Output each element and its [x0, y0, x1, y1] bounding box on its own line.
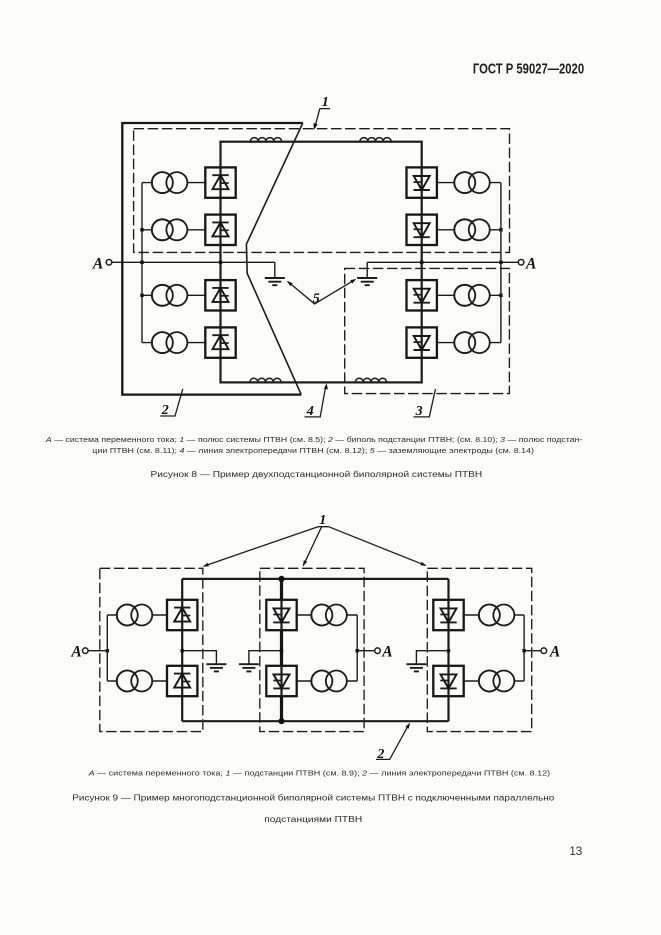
transformer T10 [117, 671, 153, 692]
svg-text:ГОСТ Р 59027—2020: ГОСТ Р 59027—2020 [473, 61, 584, 78]
label 2 arrowhead [405, 723, 410, 729]
label 1 arrowhead middle [303, 560, 307, 566]
svg-text:ции ПТВН (см. 8.11); 4 — линия: ции ПТВН (см. 8.11); 4 — линия электропе… [92, 448, 534, 455]
label 4 leader [305, 386, 326, 417]
ground tap wire right [367, 262, 422, 277]
svg-text:Рисунок 9 — Пример многоподста: Рисунок 9 — Пример многоподстанционной б… [72, 794, 555, 803]
label 1 leader three-branch [204, 527, 425, 566]
substation 3 DC bus [447, 579, 449, 721]
wire row2 right [437, 229, 501, 231]
wire row1 right [437, 182, 501, 184]
converter valve U13 [433, 600, 463, 630]
converter valve U12 [266, 666, 296, 696]
left AC feeder wire [141, 183, 143, 343]
sub3 AC line wire [524, 650, 541, 652]
converter valve U4 [205, 327, 235, 357]
junction feeder-right / A line [499, 261, 502, 264]
converter valve U7 [407, 280, 437, 310]
transformer T5 [454, 172, 490, 193]
sub2 AC feeder wire [356, 615, 358, 681]
svg-text:1: 1 [319, 513, 326, 528]
svg-text:1: 1 [322, 95, 329, 110]
label 5 arrowhead right [350, 279, 356, 284]
sub1 wire row1 [107, 614, 167, 616]
junction feeder-right row3 [499, 294, 502, 297]
terminal A left [106, 260, 112, 266]
terminal A sub3 [541, 648, 547, 654]
svg-text:А — система переменного тока;: А — система переменного тока; 1 — полюс … [45, 436, 584, 444]
label 1 arrowhead right [420, 562, 426, 566]
reactor L2 top-right [360, 138, 391, 141]
enclosure 2: bipole substation solid box [122, 123, 302, 395]
sub3 ground tap wire [416, 651, 448, 664]
transformer T13 [479, 605, 514, 626]
transformer T4 [152, 332, 188, 353]
svg-text:13: 13 [569, 844, 582, 858]
junction bus-right / A line [420, 261, 423, 264]
AC line A left wire [112, 261, 275, 263]
sub2 wire row2 [297, 680, 358, 682]
terminal A right [518, 260, 524, 266]
enclosure 2 zigzag right boundary [246, 123, 302, 395]
converter valve U14 [433, 666, 463, 696]
sub1 AC line wire [88, 650, 107, 652]
wire row1 left [142, 182, 205, 184]
label 5 leader V [288, 280, 354, 304]
wire row2 left [142, 229, 205, 231]
sub1 wire row2 [107, 680, 167, 682]
wire row3 left [142, 294, 205, 296]
sub2 ground tap wire [249, 651, 282, 664]
junction sub1 bus/ground [181, 649, 184, 652]
converter valve U2 [205, 215, 235, 245]
transformer T12 [311, 671, 347, 692]
svg-text:3: 3 [415, 404, 423, 419]
label 3 leader [414, 389, 436, 417]
reactor L4 bottom-right [356, 378, 387, 381]
converter valve U10 [167, 666, 197, 696]
label 1 arrowhead left [203, 563, 209, 567]
transformer T11 [311, 605, 347, 626]
svg-text:А: А [381, 643, 392, 660]
junction feeder-right row2 [499, 228, 502, 231]
transformer T6 [454, 219, 490, 240]
DC line top pole [182, 578, 448, 580]
converter valve U8 [407, 327, 437, 357]
converter valve U9 [167, 600, 197, 630]
junction feeder-left / A line [140, 261, 143, 264]
junction sub3 bus/ground [447, 649, 450, 652]
sub3 wire row2 [464, 680, 524, 682]
converter valve U3 [205, 280, 235, 310]
svg-text:подстанциями ПТВН: подстанциями ПТВН [264, 815, 362, 824]
label 4 arrowhead [324, 383, 328, 389]
substation 2 DC bus (heavy) [280, 579, 283, 721]
terminal A sub2 [375, 648, 381, 654]
right AC feeder wire [500, 183, 502, 343]
reactor L3 bottom-left [250, 378, 281, 381]
sub2 AC line wire [357, 650, 375, 652]
label 2 leader [376, 725, 409, 759]
junction sub2 feeder/A [356, 649, 359, 652]
node sub2 bus top [278, 576, 284, 582]
ground electrode sub2 [239, 664, 259, 671]
ground electrode left [265, 278, 285, 285]
ground electrode sub1 [206, 664, 226, 671]
DC bus loop (transmission line poles) [221, 142, 422, 383]
wire row4 left [142, 342, 205, 344]
svg-text:А: А [92, 255, 103, 272]
junction feeder-left row3 [140, 294, 143, 297]
sub1 AC feeder wire [106, 615, 108, 681]
converter valve U5 [407, 167, 437, 197]
svg-text:4: 4 [306, 404, 314, 419]
svg-text:А: А [549, 643, 560, 660]
svg-text:А — система переменного тока;: А — система переменного тока; 1 — подста… [87, 770, 550, 777]
label 2 leader [160, 389, 183, 416]
transformer T14 [479, 671, 514, 692]
junction bus-left / A line [219, 261, 222, 264]
transformer T1 [152, 172, 188, 193]
transformer T8 [454, 332, 490, 353]
reactor L1 top-left [251, 138, 282, 141]
transformer T2 [152, 219, 188, 240]
sub1 ground tap wire [182, 651, 216, 664]
substation 1 DC bus [181, 579, 183, 721]
substation 1 dashed box [100, 568, 203, 731]
enclosure 1: dashed pole-of-system box [134, 129, 510, 253]
transformer T9 [117, 605, 153, 626]
svg-text:5: 5 [313, 291, 320, 306]
junction sub3 feeder/A [522, 649, 525, 652]
substation 2 dashed box [260, 568, 364, 731]
wire row3 right [437, 294, 501, 296]
label 1 leader [315, 109, 330, 129]
enclosure 3: dashed pole-of-substation box [345, 268, 510, 393]
junction sub2 bus/ground [280, 649, 283, 652]
svg-text:А: А [525, 255, 536, 272]
AC line A right wire [422, 261, 519, 263]
converter valve U6 [407, 215, 437, 245]
label 1 arrowhead [314, 123, 318, 130]
junction feeder-left row2 [140, 228, 143, 231]
converter valve U11 [266, 600, 296, 630]
svg-text:2: 2 [161, 403, 169, 418]
transformer T7 [454, 285, 490, 306]
svg-text:2: 2 [376, 747, 384, 762]
sub2 wire row1 [297, 614, 358, 616]
wire row4 right [437, 342, 501, 344]
DC line bottom pole [182, 720, 448, 722]
ground tap wire left [274, 262, 276, 277]
label 5 arrowhead left [287, 281, 293, 286]
sub3 wire row1 [464, 614, 524, 616]
converter valve U1 [205, 167, 235, 197]
transformer T3 [152, 285, 188, 306]
junction sub1 feeder/A [106, 649, 109, 652]
svg-text:Рисунок 8 — Пример двухподстан: Рисунок 8 — Пример двухподстанционной би… [151, 470, 483, 479]
ground electrode right [357, 278, 377, 285]
substation 3 dashed box [427, 568, 531, 731]
svg-text:А: А [70, 643, 81, 660]
terminal A sub1 [83, 648, 89, 654]
ground electrode sub3 [406, 664, 426, 671]
node sub2 bus bottom [278, 718, 284, 724]
sub3 AC feeder wire [523, 615, 525, 681]
